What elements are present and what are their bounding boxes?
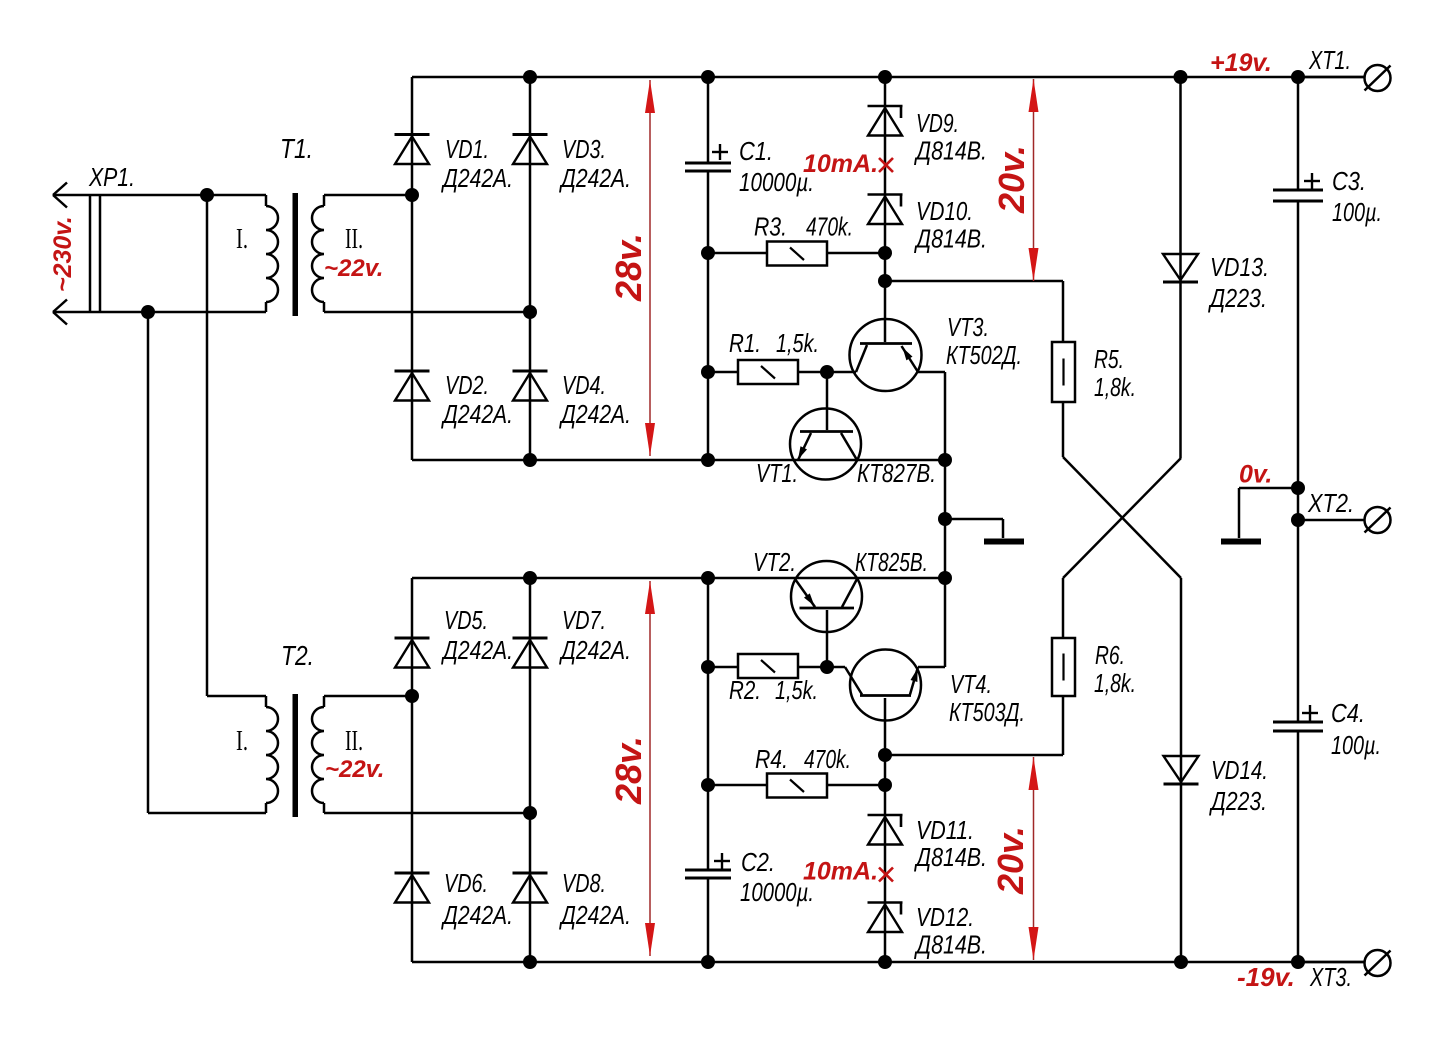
svg-text:~230v.: ~230v.: [49, 216, 77, 292]
svg-text:VT4.: VT4.: [950, 669, 992, 699]
svg-text:20v.: 20v.: [990, 826, 1031, 895]
svg-text:R2.: R2.: [729, 675, 761, 705]
svg-text:КТ502Д.: КТ502Д.: [946, 340, 1022, 370]
svg-text:КТ827В.: КТ827В.: [857, 458, 936, 488]
svg-text:I.: I.: [236, 726, 248, 757]
svg-text:R5.: R5.: [1094, 344, 1124, 374]
svg-text:VD12.: VD12.: [916, 902, 974, 932]
svg-text:Д223.: Д223.: [1208, 283, 1267, 313]
svg-text:10mA.: 10mA.: [803, 858, 878, 886]
svg-text:КТ503Д.: КТ503Д.: [949, 697, 1025, 727]
svg-text:1,8k.: 1,8k.: [1094, 372, 1136, 402]
svg-text:Д242А.: Д242А.: [441, 900, 513, 930]
svg-text:VD4.: VD4.: [562, 370, 606, 400]
svg-text:VD10.: VD10.: [916, 196, 973, 226]
svg-text:VD7.: VD7.: [562, 605, 606, 635]
svg-text:VD8.: VD8.: [562, 868, 606, 898]
svg-text:C3.: C3.: [1332, 166, 1366, 196]
svg-text:R6.: R6.: [1095, 640, 1125, 670]
svg-text:Д223.: Д223.: [1209, 786, 1267, 816]
svg-text:~22v.: ~22v.: [325, 756, 384, 783]
svg-text:Д242А.: Д242А.: [559, 635, 631, 665]
svg-text:+19v.: +19v.: [1210, 49, 1272, 77]
svg-text:XT1.: XT1.: [1308, 45, 1351, 75]
svg-text:~22v.: ~22v.: [324, 255, 383, 282]
svg-text:0v.: 0v.: [1239, 461, 1272, 489]
svg-text:28v.: 28v.: [608, 736, 649, 805]
svg-text:Д242А.: Д242А.: [559, 163, 631, 193]
svg-text:VD9.: VD9.: [916, 108, 959, 138]
svg-text:1,8k.: 1,8k.: [1094, 668, 1136, 698]
svg-text:VD2.: VD2.: [445, 370, 489, 400]
svg-text:VD11.: VD11.: [916, 815, 974, 845]
svg-text:Д814В.: Д814В.: [914, 842, 987, 872]
svg-text:VD1.: VD1.: [445, 134, 489, 164]
svg-text:VD5.: VD5.: [444, 605, 488, 635]
svg-text:КТ825В.: КТ825В.: [855, 547, 928, 577]
svg-text:-19v.: -19v.: [1237, 962, 1295, 992]
svg-text:VD6.: VD6.: [444, 868, 488, 898]
svg-text:XP1.: XP1.: [88, 162, 135, 192]
svg-text:VD14.: VD14.: [1211, 755, 1268, 785]
svg-text:1,5k.: 1,5k.: [775, 675, 818, 705]
svg-text:C1.: C1.: [739, 136, 773, 166]
svg-text:Д814В.: Д814В.: [914, 136, 987, 166]
svg-text:VD3.: VD3.: [562, 134, 606, 164]
svg-text:Д814В.: Д814В.: [914, 224, 987, 254]
svg-text:T1.: T1.: [280, 133, 313, 164]
svg-text:Д242А.: Д242А.: [441, 635, 513, 665]
svg-text:R4.: R4.: [755, 744, 788, 774]
svg-text:20v.: 20v.: [991, 145, 1032, 214]
svg-text:100µ.: 100µ.: [1332, 197, 1382, 227]
svg-text:VT2.: VT2.: [753, 547, 796, 577]
svg-text:II.: II.: [345, 224, 363, 255]
svg-text:Д242А.: Д242А.: [559, 900, 631, 930]
svg-text:R3.: R3.: [754, 212, 787, 242]
svg-text:28v.: 28v.: [608, 233, 649, 302]
svg-text:470k.: 470k.: [806, 212, 853, 242]
svg-text:Д242А.: Д242А.: [441, 399, 513, 429]
svg-text:C4.: C4.: [1331, 698, 1365, 728]
svg-text:1,5k.: 1,5k.: [776, 328, 819, 358]
svg-text:VD13.: VD13.: [1210, 252, 1269, 282]
svg-text:Д242А.: Д242А.: [559, 399, 631, 429]
svg-text:VT1.: VT1.: [756, 458, 798, 488]
svg-text:R1.: R1.: [729, 328, 761, 358]
svg-text:T2.: T2.: [281, 640, 314, 671]
svg-text:XT3.: XT3.: [1309, 962, 1352, 992]
svg-text:Д814В.: Д814В.: [914, 930, 987, 960]
svg-text:VT3.: VT3.: [947, 312, 989, 342]
svg-text:10mA.: 10mA.: [803, 150, 878, 178]
svg-text:470k.: 470k.: [804, 744, 851, 774]
svg-text:Д242А.: Д242А.: [441, 163, 513, 193]
svg-text:100µ.: 100µ.: [1331, 730, 1381, 760]
svg-text:II.: II.: [345, 726, 363, 757]
svg-text:C2.: C2.: [741, 847, 775, 877]
svg-text:I.: I.: [236, 224, 248, 255]
svg-text:XT2.: XT2.: [1307, 488, 1354, 518]
